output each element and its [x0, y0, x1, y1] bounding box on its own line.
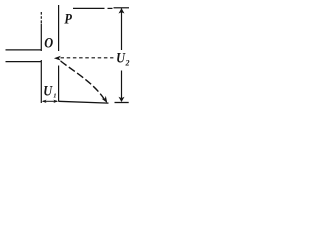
svg-text:U: U: [43, 83, 53, 99]
svg-text:P: P: [64, 11, 72, 27]
svg-text:1: 1: [53, 93, 56, 100]
svg-text:2: 2: [125, 59, 130, 68]
svg-text:O: O: [44, 35, 53, 51]
